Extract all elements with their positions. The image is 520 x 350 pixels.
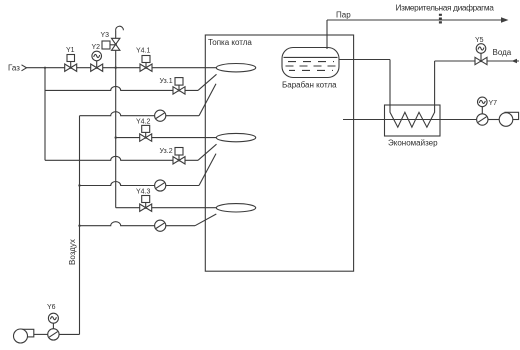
wire gas branch vertical left (x=45) (44, 68, 46, 161)
node Пар (steam label) (336, 10, 351, 19)
wire diagonal Уз.1 to burner 1 (198, 74, 217, 90)
valve Уз.1 (160, 78, 186, 95)
svg-text:Уз.2: Уз.2 (160, 148, 173, 155)
actuator Y7 (478, 97, 498, 114)
damper air line 2 (155, 180, 166, 191)
svg-text:Y4.2: Y4.2 (136, 119, 151, 126)
damper air line 3 (155, 220, 166, 231)
svg-text:Топка котла: Топка котла (208, 38, 252, 47)
wire air line 3 (with hop) (80, 222, 196, 226)
wire flue gas line (343, 119, 477, 121)
node Вода (water label) (493, 48, 512, 57)
wire air supply vertical (79, 116, 81, 335)
svg-text:Y1: Y1 (66, 47, 75, 54)
svg-text:Y5: Y5 (475, 37, 484, 44)
valve Y5 (475, 37, 487, 65)
node Воздух (air label, rotated) (68, 239, 77, 265)
boiler furnace box Топка котла (205, 35, 353, 271)
valve Уз.2 (160, 148, 186, 165)
svg-text:Газ: Газ (8, 64, 20, 73)
valve Y3 (vertical, vent) (101, 32, 120, 50)
valve Y4.2 (136, 119, 152, 142)
wire flue to fan (488, 119, 499, 121)
valve Y2 (91, 44, 103, 71)
wire air line 1 (with hop) (80, 112, 200, 116)
damper air line 1 (155, 110, 166, 121)
vent pipe crook (116, 26, 124, 38)
burner 3 (216, 204, 255, 212)
wire water inlet line (435, 60, 519, 62)
svg-text:Барабан котла: Барабан котла (282, 81, 337, 90)
wire steam riser from drum (326, 20, 328, 49)
wire gas line 3 (116, 207, 217, 209)
svg-text:Пар: Пар (336, 10, 351, 19)
svg-text:Y4.1: Y4.1 (136, 48, 151, 55)
wire diagonal Уз.2 to burner 2 (198, 144, 217, 160)
burner 1 (216, 63, 255, 71)
wire economizer inlet downcomer (434, 61, 436, 105)
wire gas line 2 (116, 137, 217, 139)
svg-text:Экономайзер: Экономайзер (388, 139, 438, 148)
wire diagonal air 3 to burner 3 (195, 214, 216, 226)
wire air line 2 (with hop) (80, 182, 200, 186)
valve Y4.3 (136, 189, 152, 212)
svg-text:Y2: Y2 (92, 44, 101, 51)
steam arrow (501, 17, 509, 23)
wire ignition line Уз.2 (with hop) (45, 156, 198, 160)
damper air main Y6 (48, 329, 80, 340)
gas inlet arrow (22, 65, 27, 71)
wire diagonal air 1 to burner 1 (199, 84, 216, 116)
svg-text:Y3: Y3 (101, 32, 110, 39)
actuator Y6 (47, 304, 58, 329)
burner 2 (216, 133, 255, 141)
boiler drum Барабан котла (282, 48, 339, 90)
fan flue exhauster (499, 112, 518, 126)
svg-text:Y4.3: Y4.3 (136, 189, 151, 196)
economizer coil (390, 105, 435, 127)
svg-text:Уз.1: Уз.1 (160, 78, 173, 85)
node Газ (gas inlet label) (8, 64, 20, 73)
junction gas main / left branch (44, 67, 46, 69)
wire economizer outlet riser (389, 60, 391, 106)
svg-text:Воздух: Воздух (68, 239, 77, 265)
water arrow (512, 59, 518, 63)
wire steam line (327, 19, 501, 21)
economizer box (385, 105, 441, 148)
wire gas distribution vertical (x=115.7) (115, 50, 117, 207)
fan air blower (14, 329, 48, 343)
svg-text:Измерительная диафрагма: Измерительная диафрагма (396, 2, 495, 12)
wire drum feed line (339, 59, 390, 61)
valve Y4.1 (136, 48, 152, 72)
wire ignition line Уз.1 (with hop over vertical) (45, 86, 198, 90)
junction gas main / distribution vertical (115, 67, 117, 69)
wire gas main line (27, 67, 217, 69)
svg-text:Y7: Y7 (489, 100, 498, 107)
valve Y1 (65, 47, 77, 71)
damper flue Y7 (477, 114, 488, 125)
svg-text:Y6: Y6 (47, 304, 56, 311)
svg-text:Вода: Вода (493, 48, 512, 57)
wire diagonal air 2 to burner 2 (199, 154, 216, 186)
measuring diaphragm (439, 14, 442, 25)
node Измерительная диафрагма label (396, 2, 495, 12)
